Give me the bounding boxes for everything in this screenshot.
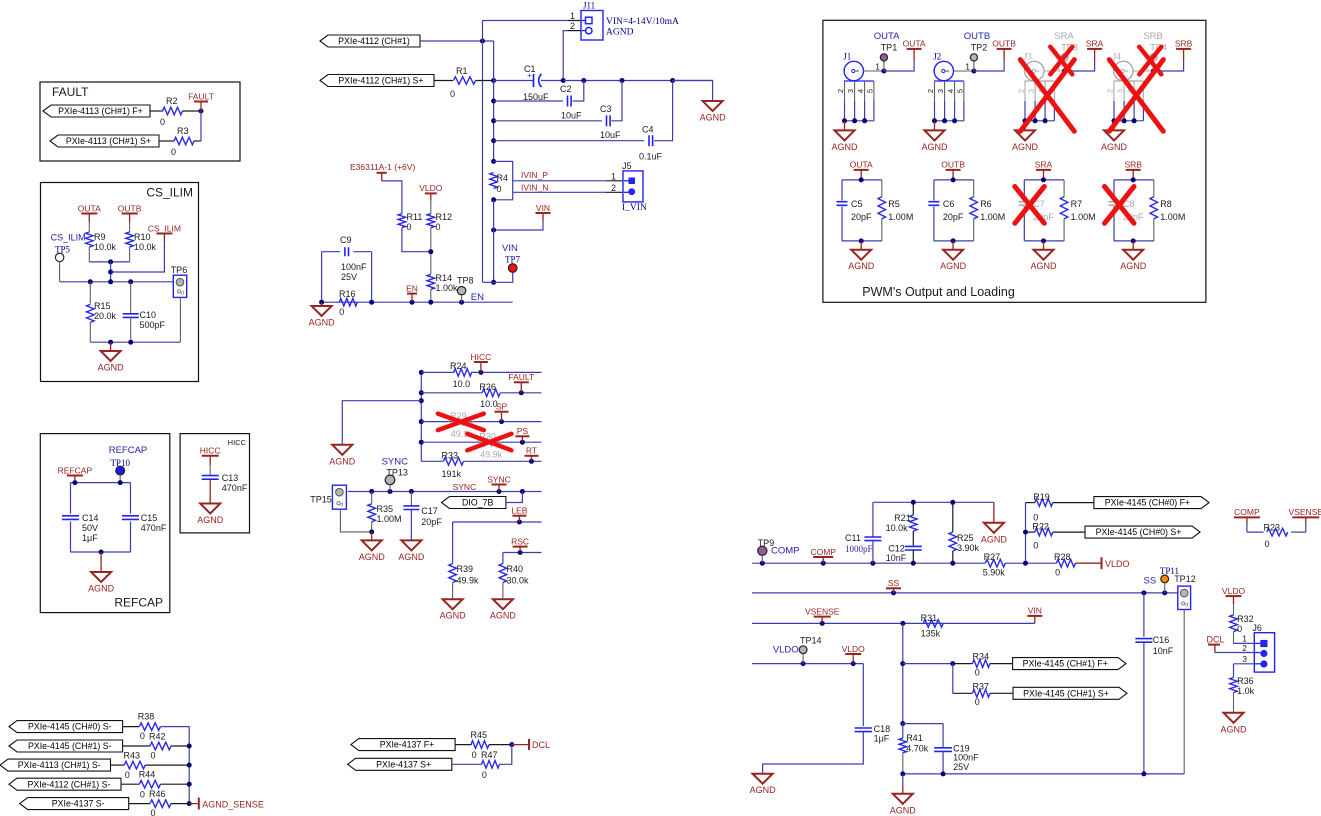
capacitor C10 (130, 282, 132, 314)
resistor R9 (86, 232, 94, 247)
svg-text:R37: R37 (973, 681, 990, 691)
ground AGND (100, 552, 102, 572)
svg-text:R47: R47 (481, 750, 498, 760)
resistor R29 (not fitted) (421, 421, 541, 423)
cross-out X (1020, 60, 1074, 132)
power HICC (202, 455, 219, 457)
svg-text:VIN: VIN (502, 243, 518, 254)
svg-text:AGND: AGND (329, 456, 356, 466)
svg-text:3.90k: 3.90k (957, 543, 980, 553)
svg-text:SRA: SRA (1086, 39, 1104, 49)
power EN (407, 293, 417, 295)
svg-text:REFCAP: REFCAP (109, 445, 148, 456)
svg-text:R7: R7 (1071, 199, 1083, 209)
svg-text:TP6: TP6 (171, 265, 188, 275)
svg-text:1.00M: 1.00M (980, 212, 1005, 222)
svg-text:VLDO: VLDO (419, 183, 443, 193)
net flag PXIe-4112 (CH#1) S+ (320, 75, 434, 87)
svg-text:SYNC: SYNC (453, 482, 477, 492)
power RT (529, 459, 534, 464)
svg-text:R27: R27 (984, 552, 1001, 562)
svg-text:0: 0 (151, 808, 156, 816)
svg-text:OUTB: OUTB (992, 39, 1016, 49)
svg-text:SS: SS (1144, 576, 1157, 587)
resistor R8 (1150, 197, 1158, 219)
power OUTA (854, 169, 869, 171)
svg-text:25V: 25V (341, 272, 357, 282)
capacitor C1 (polarized) (494, 80, 534, 82)
resistor R47 (452, 763, 482, 765)
net flag PXIe-4145 (CH#0) S+ (1085, 526, 1200, 538)
svg-text:AGND: AGND (831, 142, 858, 152)
svg-text:HICC: HICC (228, 438, 247, 447)
svg-text:470nF: 470nF (222, 483, 248, 493)
ground AGND (952, 241, 954, 250)
resistor R4 (490, 173, 498, 189)
svg-text:1: 1 (611, 171, 616, 181)
svg-text:CS_ILIM: CS_ILIM (51, 233, 86, 243)
svg-text:R28: R28 (1054, 552, 1071, 562)
resistor R46 (129, 803, 150, 805)
resistor R24 (421, 371, 454, 373)
svg-text:TP7: TP7 (505, 255, 521, 265)
CS_ILIM block border (41, 183, 199, 382)
svg-text:C18: C18 (874, 724, 891, 734)
svg-text:191k: 191k (442, 469, 462, 479)
ground AGND (200, 504, 220, 514)
capacitor C18 (862, 664, 864, 727)
svg-text:C10: C10 (140, 310, 157, 320)
svg-text:TP15: TP15 (310, 495, 332, 505)
resistor R42 (123, 745, 150, 747)
wire (71, 482, 131, 484)
svg-text:C12: C12 (888, 544, 905, 554)
power SRA (1064, 62, 1094, 71)
wire (200, 111, 202, 141)
svg-text:R19: R19 (1033, 492, 1050, 502)
svg-text:C6: C6 (943, 199, 955, 209)
svg-text:135k: 135k (921, 629, 941, 639)
svg-text:+: + (527, 71, 532, 80)
ground AGND (371, 532, 373, 541)
svg-text:DIO_7B: DIO_7B (462, 498, 493, 508)
svg-text:VLDO: VLDO (1105, 559, 1130, 569)
svg-text:AGND: AGND (981, 534, 1008, 544)
svg-text:SP: SP (496, 402, 508, 412)
svg-text:1: 1 (875, 62, 880, 72)
net flag DIO_7B (442, 497, 506, 509)
svg-text:AGND: AGND (890, 805, 917, 815)
svg-text:2: 2 (1242, 643, 1247, 653)
svg-text:OUTA: OUTA (78, 203, 101, 213)
svg-text:TP1: TP1 (881, 43, 898, 53)
svg-text:0: 0 (472, 750, 477, 760)
svg-text:1.00k: 1.00k (436, 283, 459, 293)
svg-text:OUTA: OUTA (903, 39, 926, 49)
svg-text:4: 4 (946, 89, 955, 93)
cross-out X testpoint (1050, 47, 1072, 75)
svg-text:PXIe-4145 (CH#0) F+: PXIe-4145 (CH#0) F+ (1105, 498, 1190, 508)
svg-text:AGND: AGND (921, 142, 948, 152)
wire RSC row (503, 552, 542, 554)
resistor R36 (1233, 664, 1235, 678)
capacitor C17 (410, 492, 412, 506)
node (561, 78, 566, 83)
resistor R19 (1025, 503, 1027, 564)
PWM block border (823, 20, 1206, 302)
net flag PXIe-4137 F+ (351, 739, 455, 751)
svg-text:PXIe-4113 (CH#1) S-: PXIe-4113 (CH#1) S- (18, 760, 101, 770)
wire (506, 492, 523, 503)
svg-text:10uF: 10uF (561, 110, 582, 120)
svg-text:0: 0 (171, 147, 176, 157)
svg-text:R40: R40 (507, 564, 524, 574)
svg-text:OUTA: OUTA (874, 31, 900, 42)
power SP (499, 419, 504, 424)
ground AGND (321, 302, 323, 306)
wire IVIN_N (494, 192, 513, 200)
svg-text:VIN: VIN (1028, 606, 1042, 616)
wire bottom bus (903, 773, 1184, 775)
capacitor C2 (494, 100, 563, 102)
svg-text:R2: R2 (166, 96, 178, 106)
testpoint TP13 (385, 475, 395, 485)
wire comp top bus (873, 501, 994, 503)
wire (150, 110, 163, 112)
svg-text:C9: C9 (340, 235, 352, 245)
svg-text:PXIe-4145 (CH#0) S-: PXIe-4145 (CH#0) S- (28, 722, 112, 732)
power SRB (1126, 169, 1141, 171)
wire (434, 80, 453, 82)
wire (903, 723, 943, 725)
svg-text:J4: J4 (1113, 52, 1122, 62)
svg-text:0: 0 (450, 89, 455, 99)
resistor R2 (163, 107, 183, 115)
power VLDO (425, 192, 437, 194)
resistor R40 (502, 553, 504, 564)
svg-text:0: 0 (482, 770, 487, 780)
capacitor C3 (494, 120, 602, 122)
svg-text:OUTB: OUTB (941, 160, 965, 170)
wire (430, 228, 432, 275)
svg-text:R14: R14 (436, 273, 453, 283)
svg-text:AGND: AGND (848, 261, 875, 271)
J2 pins (934, 80, 964, 82)
svg-text:AGND: AGND (1101, 142, 1128, 152)
net flag PXIe-4145 (CH#0) S- (9, 721, 123, 733)
svg-text:500pF: 500pF (140, 320, 166, 330)
resistor R22 (1023, 530, 1028, 535)
svg-text:R32: R32 (1237, 614, 1254, 624)
svg-text:2: 2 (926, 89, 935, 93)
ground AGND (443, 599, 463, 609)
capacitor C15 (130, 483, 132, 514)
net flag PXIe-4137 S+ (348, 758, 452, 770)
net flag PXIe-4145 (CH#1) F+ (1013, 658, 1126, 670)
svg-text:R5: R5 (888, 199, 900, 209)
wire (183, 110, 202, 112)
wire C bus top (563, 80, 712, 82)
net flag PXIe-4113 (CH#1) S+ (50, 135, 159, 147)
svg-text:TP5: TP5 (55, 244, 71, 254)
wire (90, 341, 180, 343)
svg-text:R45: R45 (471, 730, 488, 740)
wire (321, 252, 323, 303)
svg-text:0: 0 (436, 222, 441, 232)
ground AGND (401, 540, 421, 550)
svg-text:R31: R31 (921, 613, 938, 623)
svg-text:J1: J1 (843, 52, 851, 62)
svg-text:R22: R22 (1032, 522, 1049, 532)
wire mid bus (420, 372, 422, 461)
wire CS_ILIM bus (60, 281, 174, 283)
svg-text:RT: RT (526, 446, 537, 456)
wire (89, 261, 129, 263)
svg-text:100nF: 100nF (341, 262, 367, 272)
svg-text:50V: 50V (82, 523, 98, 533)
svg-text:d: d (181, 290, 184, 296)
svg-text:R1: R1 (456, 66, 468, 76)
wire J6 pin2 (1215, 652, 1254, 654)
svg-text:R6: R6 (980, 199, 992, 209)
svg-text:25V: 25V (953, 762, 969, 772)
svg-text:TP14: TP14 (800, 636, 822, 646)
svg-text:FAULT: FAULT (188, 91, 214, 101)
ground AGND tap (342, 401, 421, 445)
testpoint TP7 (494, 272, 513, 282)
capacitor C6 (928, 201, 939, 203)
ground AGND (493, 599, 513, 609)
svg-text:RSC: RSC (511, 536, 529, 546)
svg-text:0: 0 (1033, 541, 1038, 551)
svg-text:2: 2 (1106, 89, 1115, 93)
wire (420, 40, 494, 42)
svg-text:5: 5 (865, 89, 874, 93)
resistor R6 (970, 197, 978, 219)
ground AGND right (673, 81, 713, 102)
svg-text:R25: R25 (957, 533, 974, 543)
svg-text:R38: R38 (138, 712, 155, 722)
svg-text:TP12: TP12 (1174, 574, 1196, 584)
power SRA (1036, 169, 1051, 171)
svg-text:1.00M: 1.00M (377, 514, 402, 524)
power OUTA (884, 62, 914, 71)
ground AGND (860, 241, 862, 250)
wire SYNC row (348, 491, 542, 493)
svg-text:1: 1 (965, 62, 970, 72)
node (491, 280, 496, 285)
svg-text:TP8: TP8 (457, 276, 474, 286)
svg-text:PXIe-4113 (CH#1) F+: PXIe-4113 (CH#1) F+ (58, 106, 143, 116)
J4 pins (1114, 80, 1144, 82)
ground AGND (110, 342, 112, 351)
svg-text:AGND: AGND (309, 318, 336, 328)
svg-text:PXIe-4112 (CH#1): PXIe-4112 (CH#1) (338, 36, 410, 46)
net flag PXIe-4112 (CH#1) (320, 35, 420, 47)
power CS_ILIM (156, 233, 172, 235)
resistor R31 (923, 620, 943, 628)
svg-text:20pF: 20pF (943, 212, 964, 222)
testpoint TP11 (1161, 575, 1169, 583)
capacitor C8 (1109, 201, 1120, 203)
svg-text:0: 0 (407, 222, 412, 232)
node DCL (509, 742, 514, 747)
svg-text:PXIe-4145 (CH#1) F+: PXIe-4145 (CH#1) F+ (1023, 659, 1108, 669)
wire (402, 228, 431, 252)
svg-text:SRA: SRA (1035, 160, 1053, 170)
svg-text:0: 0 (1055, 568, 1060, 578)
testpoint TP9 (758, 546, 767, 555)
svg-text:SRB: SRB (1124, 160, 1142, 170)
svg-text:R35: R35 (377, 504, 394, 514)
cross-out X (1109, 60, 1163, 132)
node (491, 228, 496, 233)
svg-text:3: 3 (1242, 654, 1247, 664)
svg-text:1000pF: 1000pF (845, 544, 873, 554)
svg-text:R9: R9 (94, 232, 106, 242)
resistor R27 (985, 559, 1005, 567)
wire (161, 727, 190, 804)
svg-text:2: 2 (570, 21, 575, 31)
svg-text:R33: R33 (442, 451, 459, 461)
svg-text:J2: J2 (933, 52, 941, 62)
capacitor C11 (872, 502, 874, 537)
node FAULT (199, 109, 204, 114)
svg-text:J3: J3 (1024, 52, 1033, 62)
ground AGND (1043, 241, 1045, 250)
cross-out X capacitor (1105, 187, 1135, 224)
power HICC (478, 370, 483, 375)
capacitor C16 (1143, 593, 1145, 637)
svg-text:0: 0 (151, 751, 156, 761)
node (491, 197, 496, 202)
resistor R25 (952, 502, 954, 532)
svg-text:AGND: AGND (440, 611, 467, 621)
svg-text:10uF: 10uF (600, 130, 621, 140)
svg-text:2: 2 (611, 183, 616, 193)
svg-text:C4: C4 (642, 125, 654, 135)
svg-text:R12: R12 (436, 212, 453, 222)
REFCAP block border (40, 434, 170, 613)
power SYNC (492, 484, 507, 486)
svg-text:5: 5 (955, 89, 964, 93)
svg-text:SYNC: SYNC (382, 457, 409, 468)
svg-text:AGND_SENSE: AGND_SENSE (202, 800, 264, 810)
wire (952, 664, 954, 694)
net flag PXIe-4112 (CH#1) S- (9, 778, 121, 790)
svg-text:SRB: SRB (1143, 31, 1163, 42)
svg-text:R39: R39 (457, 564, 474, 574)
svg-text:10.0k: 10.0k (134, 242, 157, 252)
wire EN bus (322, 301, 513, 303)
resistor R7 (1060, 197, 1068, 219)
svg-text:SRB: SRB (1175, 39, 1193, 49)
testpoint TP2 (971, 69, 976, 74)
svg-text:R36: R36 (1237, 676, 1254, 686)
capacitor C5 (837, 201, 848, 203)
testpoint TP3 (1062, 69, 1067, 74)
svg-text:R15: R15 (94, 301, 111, 311)
wire LEB row (453, 521, 542, 523)
svg-text:10.0: 10.0 (453, 379, 471, 389)
svg-text:10nF: 10nF (886, 553, 907, 563)
svg-text:TP13: TP13 (386, 468, 408, 478)
svg-text:4.70k: 4.70k (906, 743, 929, 753)
ground AGND (844, 121, 846, 131)
svg-text:PXIe-4145 (CH#1) S+: PXIe-4145 (CH#1) S+ (1023, 688, 1109, 698)
power VLDO (845, 653, 861, 655)
svg-text:VIN: VIN (536, 203, 550, 213)
resistor R23 (1247, 531, 1264, 533)
capacitor C19 (942, 724, 944, 748)
svg-text:C14: C14 (82, 513, 99, 523)
power SRB (1153, 62, 1183, 71)
testpoint TP1 (881, 69, 886, 74)
svg-text:R16: R16 (339, 289, 356, 299)
resistor R41 (902, 724, 904, 739)
svg-text:3: 3 (846, 89, 855, 93)
svg-text:C5: C5 (851, 199, 863, 209)
svg-text:VLDO: VLDO (773, 645, 799, 656)
svg-text:OUTB: OUTB (118, 203, 142, 213)
svg-text:AGND: AGND (700, 113, 727, 123)
node (108, 270, 113, 275)
svg-text:49.9k: 49.9k (457, 576, 480, 586)
ground AGND (934, 121, 936, 131)
capacitor C9 (322, 251, 340, 253)
svg-text:AGND: AGND (398, 552, 425, 562)
wire VSENSE row (752, 622, 1035, 624)
svg-text:1: 1 (570, 11, 575, 21)
power OUTA (81, 213, 97, 215)
net flag PXIe-4145 (CH#1) S+ (1013, 687, 1127, 699)
svg-text:AGND: AGND (88, 584, 115, 594)
power VIN (536, 212, 551, 214)
svg-text:AGND: AGND (940, 261, 967, 271)
svg-text:PXIe-4137 F+: PXIe-4137 F+ (380, 740, 435, 750)
svg-text:EN: EN (471, 292, 484, 303)
wire loading loop (842, 179, 882, 181)
svg-text:AGND: AGND (1220, 724, 1247, 734)
resistor R30 (not fitted) (421, 441, 541, 443)
power PS (520, 440, 525, 445)
ground AGND (993, 502, 995, 523)
svg-text:AGND: AGND (98, 363, 125, 373)
svg-text:C2: C2 (560, 84, 572, 94)
wire SS row (752, 592, 1178, 594)
svg-text:20pF: 20pF (851, 212, 872, 222)
power OUTB (946, 169, 961, 171)
svg-text:R3: R3 (177, 126, 189, 136)
svg-text:C15: C15 (141, 513, 158, 523)
capacitor C7 (1019, 201, 1030, 203)
power VLDO (1075, 562, 1100, 564)
svg-text:COMP: COMP (1234, 507, 1260, 517)
svg-text:R34: R34 (973, 652, 990, 662)
svg-text:PS: PS (517, 426, 529, 436)
svg-text:1μF: 1μF (82, 533, 98, 543)
svg-text:0: 0 (975, 668, 980, 678)
svg-text:OUTA: OUTA (850, 160, 873, 170)
svg-text:AGND: AGND (197, 515, 224, 525)
svg-text:R24: R24 (450, 361, 467, 371)
wire (763, 732, 864, 774)
resistor R43 (111, 764, 125, 766)
ground AGND (902, 774, 904, 785)
svg-text:PXIe-4112 (CH#1) S-: PXIe-4112 (CH#1) S- (28, 779, 111, 789)
net flag PXIe-4113 (CH#1) F+ (43, 105, 150, 117)
svg-text:0: 0 (160, 117, 165, 127)
